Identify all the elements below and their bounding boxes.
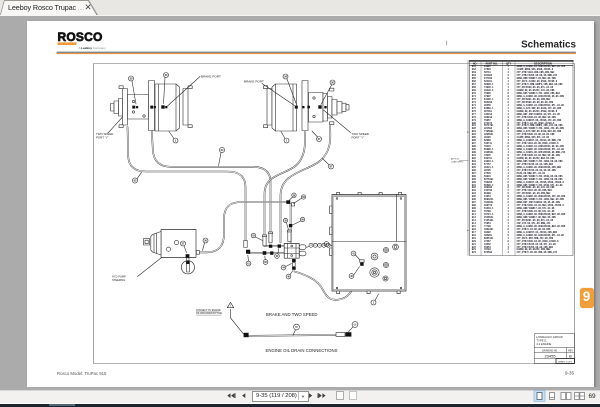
drain right fittings xyxy=(336,332,351,336)
gray band under page xyxy=(0,387,600,390)
tank ports xyxy=(370,244,399,281)
tee fitting at top junction xyxy=(286,200,294,206)
balloon 53 xyxy=(251,233,262,240)
valve accumulator capsules xyxy=(299,245,306,256)
balloon 37 (on pump) xyxy=(181,241,187,253)
orifice tube on hose 64 xyxy=(268,232,272,248)
svg-text:REV: REV xyxy=(568,350,573,352)
svg-text:66: 66 xyxy=(354,324,357,327)
balloon 34 (right wheel) xyxy=(283,74,297,105)
svg-text:ENGINE OIL DRAIN CONNECTIONS: ENGINE OIL DRAIN CONNECTIONS xyxy=(266,348,338,353)
wire: manifold row lower xyxy=(249,252,286,254)
svg-text:DRAWING NO.: DRAWING NO. xyxy=(542,349,558,352)
warning triangle note xyxy=(196,302,244,334)
balloon 63 (hose label) xyxy=(132,172,141,183)
svg-text:ATF/OIL: ATF/OIL xyxy=(451,158,460,161)
tee fitting row upper xyxy=(278,244,281,247)
balloon 44 xyxy=(281,264,291,270)
parts table borders xyxy=(468,61,573,256)
svg-text:1: 1 xyxy=(286,140,288,143)
valve drain fittings xyxy=(292,259,296,270)
svg-text:65: 65 xyxy=(295,326,298,329)
label hyd pump xyxy=(112,258,162,282)
balloon 67 (right wheel hose) xyxy=(312,131,322,142)
left brake port fittings xyxy=(132,105,167,108)
svg-text:CONNECT TO ENGINE: CONNECT TO ENGINE xyxy=(196,310,221,312)
svg-text:23455: 23455 xyxy=(544,353,556,358)
parts table text xyxy=(472,66,476,255)
balloon 57 (right hose label) xyxy=(322,158,334,169)
balloon 30 (left wheel) xyxy=(129,76,137,104)
svg-text:▲: ▲ xyxy=(467,131,470,134)
pump outlet fittings xyxy=(186,251,200,258)
svg-text:STEERING: STEERING xyxy=(112,278,125,282)
brake valve block xyxy=(284,243,299,258)
balloon 64 (hose label) xyxy=(219,147,225,166)
bottom toolbar xyxy=(0,390,600,404)
svg-text:SHEET 1 OF 1: SHEET 1 OF 1 xyxy=(558,361,573,363)
svg-text:ROSCO: ROSCO xyxy=(58,30,103,44)
balloon 1 (left wheel) xyxy=(169,132,178,144)
ROSCO logo xyxy=(58,30,107,50)
svg-text:1: 1 xyxy=(175,140,177,143)
svg-text:Rosco Model: TruPac 915: Rosco Model: TruPac 915 xyxy=(57,371,107,376)
svg-text:OIL PAN DRAIN FITTING: OIL PAN DRAIN FITTING xyxy=(196,312,222,315)
hydraulic tank xyxy=(330,192,406,293)
svg-text:HYDRAULIC GROUP,: HYDRAULIC GROUP, xyxy=(537,335,564,339)
svg-text:PORT “Y”: PORT “Y” xyxy=(352,136,365,140)
label left two speed port xyxy=(96,132,113,140)
pump drain tube and filter circle xyxy=(181,258,194,274)
balloon 36 (pump hose) xyxy=(203,238,209,251)
balloon 60 xyxy=(275,249,280,259)
orifice tube on right-wheel hose xyxy=(262,235,266,255)
svg-text:9-35: 9-35 xyxy=(565,370,575,375)
svg-text:Schematics: Schematics xyxy=(521,40,576,51)
svg-text:PORT “Y”: PORT “Y” xyxy=(96,136,109,140)
balloon 41 (tank) xyxy=(351,251,360,260)
balloon 42 (tank) xyxy=(349,267,359,279)
wire: manifold row upper xyxy=(265,245,287,247)
balloon 66 (drain right) xyxy=(349,322,358,332)
svg-text:BRAKE PORT: BRAKE PORT xyxy=(244,80,264,84)
header small mark xyxy=(446,41,448,45)
engine oil drain line xyxy=(249,335,337,336)
svg-text:BRAKE PORT: BRAKE PORT xyxy=(201,75,221,79)
svg-text:2.2 ENGINE: 2.2 ENGINE xyxy=(537,342,552,346)
balloon 34 (left wheel) xyxy=(164,73,169,104)
svg-text:▲: ▲ xyxy=(467,229,470,232)
svg-text:BRAKE AND TWO SPEED: BRAKE AND TWO SPEED xyxy=(266,312,318,317)
svg-text:B: B xyxy=(569,353,572,358)
balloon 62 xyxy=(263,256,268,264)
left brake assembly xyxy=(111,81,193,132)
balloon 65 (drain mid) xyxy=(293,324,299,335)
balloon 61 xyxy=(246,255,251,266)
tiny label left of table xyxy=(451,158,464,164)
hose: valve to tank xyxy=(295,266,362,300)
header rules xyxy=(57,51,576,53)
wire: tee drop to valve xyxy=(290,204,292,243)
balloon 56 xyxy=(293,217,305,225)
orange section tab 9 xyxy=(580,288,594,309)
right view-mode icons xyxy=(534,391,585,402)
two small page icons xyxy=(337,392,357,400)
hose: right wheel legs to manifold xyxy=(265,132,306,235)
balloon 1 (right wheel) xyxy=(281,132,289,144)
svg-text:!: ! xyxy=(230,304,231,308)
tank suction fitting xyxy=(360,260,364,266)
label right two speed port xyxy=(352,132,369,140)
fitting: end of hose 63 xyxy=(244,240,250,253)
tee fitting row lower xyxy=(270,251,273,254)
browser tab bar xyxy=(0,0,600,16)
hose: right wheel two-speed to manifold xyxy=(281,126,331,243)
orifice tube above valve xyxy=(287,230,291,241)
balloon chain 11-15 xyxy=(306,243,330,247)
balloon 36b xyxy=(283,218,288,230)
right brake assembly xyxy=(264,81,350,132)
balloon 59 xyxy=(294,195,306,204)
svg-text:TYPE G,: TYPE G, xyxy=(537,339,548,343)
svg-text:1: 1 xyxy=(373,302,375,305)
svg-text:LUBE SPEC: LUBE SPEC xyxy=(451,162,464,164)
hydraulic pump xyxy=(144,230,197,258)
hose: pump to tee xyxy=(198,202,286,252)
balloon 30 (right wheel) xyxy=(321,80,335,105)
title block xyxy=(535,334,575,364)
label left brake port xyxy=(168,75,221,107)
balloon 40 xyxy=(286,271,293,279)
nav arrows xyxy=(227,393,325,398)
balloon 1 (tank bottom) xyxy=(371,294,379,305)
drawing frame xyxy=(94,64,575,364)
balloon 2 (tank left) xyxy=(324,242,332,247)
svg-text:69: 69 xyxy=(589,393,597,400)
label right brake port xyxy=(244,80,295,106)
svg-text:63: 63 xyxy=(134,180,137,183)
drain left elbow xyxy=(244,333,249,337)
balloon 58 xyxy=(289,193,296,200)
svg-text:64: 64 xyxy=(221,149,224,152)
hose 63: left wheel flange to manifold (double line) xyxy=(128,127,246,240)
svg-text:A LeeBoy Company: A LeeBoy Company xyxy=(79,46,107,50)
hose 64: left wheel legs to manifold xyxy=(152,131,271,232)
right brake port fittings xyxy=(295,105,327,108)
inline fitting on drop xyxy=(289,224,292,227)
